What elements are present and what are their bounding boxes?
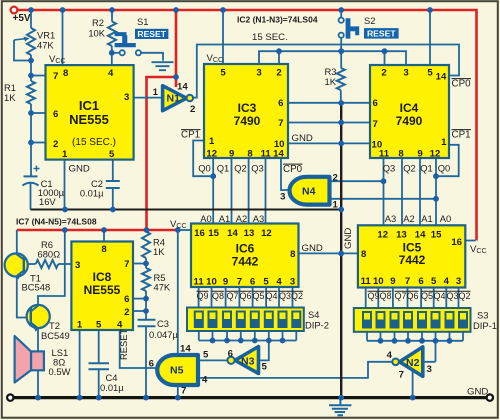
- svg-text:GND: GND: [467, 387, 488, 398]
- S1 ground symbol: [152, 62, 174, 70]
- svg-text:CP1: CP1: [452, 130, 471, 141]
- svg-text:0.5W: 0.5W: [49, 366, 71, 377]
- svg-text:3: 3: [256, 68, 261, 79]
- wire IC4 pin2 MR stub: [384, 51, 386, 65]
- svg-text:IC7 (N4-N5)=74LS08: IC7 (N4-N5)=74LS08: [16, 217, 97, 227]
- svg-text:IC6: IC6: [236, 242, 255, 256]
- wire S3 units to common: [367, 332, 463, 341]
- wire speaker to gnd rail: [37, 370, 39, 397]
- svg-text:N3: N3: [241, 356, 255, 368]
- svg-text:6: 6: [149, 359, 154, 370]
- wire S2 bottom to MR line and R3: [340, 38, 342, 68]
- wire IC1 pin6 stub: [31, 112, 46, 114]
- wire IC4 Q2 to IC5: [401, 158, 403, 225]
- resistor R2: [108, 22, 116, 47]
- svg-text:Q2: Q2: [403, 163, 416, 174]
- wire S4 units to common: [199, 332, 283, 341]
- wire IC1 pin8 Vcc riser: [62, 10, 64, 65]
- DIP switch S3: [354, 308, 471, 332]
- svg-text:7490: 7490: [396, 114, 423, 128]
- wire S1 left contact: [112, 52, 120, 54]
- wire IC1 pin5 to C2: [112, 160, 114, 181]
- wire IC4 CP1 to Q0: [436, 145, 459, 176]
- capacitor C2: [106, 181, 120, 188]
- wire N4 input1 to IC4 Q0: [330, 198, 437, 200]
- svg-text:Q8: Q8: [212, 291, 224, 301]
- ground (bottom earth symbol): [329, 399, 351, 415]
- svg-text:S3: S3: [477, 310, 488, 321]
- svg-text:7: 7: [181, 386, 186, 397]
- svg-text:Q8: Q8: [379, 291, 391, 301]
- inverter N1: [153, 82, 196, 116]
- wire IC6 outputs to S4: [199, 287, 293, 308]
- wire IC3 pin10 to IC4 pin10 GND: [288, 142, 370, 144]
- wire bottom +5V rail (red): [17, 229, 178, 232]
- svg-text:Q2: Q2: [458, 291, 470, 301]
- svg-text:Q2: Q2: [291, 291, 303, 301]
- svg-text:IC2 (N1-N3)=74LS04: IC2 (N1-N3)=74LS04: [237, 15, 318, 25]
- svg-text:DIP-1: DIP-1: [473, 320, 497, 331]
- wire red drop to N1 pin14: [175, 10, 178, 87]
- wire S2 top from rail: [340, 10, 342, 18]
- svg-text:47K: 47K: [37, 40, 54, 51]
- svg-text:N5: N5: [170, 365, 184, 377]
- svg-text:5: 5: [263, 277, 269, 288]
- svg-text:14: 14: [180, 344, 191, 355]
- svg-text:S1: S1: [137, 16, 148, 27]
- svg-text:14: 14: [436, 72, 447, 83]
- svg-text:GND: GND: [343, 228, 354, 249]
- svg-text:6: 6: [278, 98, 283, 109]
- svg-text:5: 5: [427, 68, 433, 79]
- IC6 7442: [191, 224, 299, 288]
- DIP switch S4: [187, 308, 304, 332]
- node junctions N4 inputs and IC4 CP1: [381, 173, 439, 201]
- wire IC4 Q0 to IC5: [435, 158, 437, 225]
- speaker LS1: [15, 336, 44, 383]
- svg-text:DIP-2: DIP-2: [305, 320, 329, 331]
- wire N2 pin7 to gnd rail: [412, 370, 414, 398]
- pushbutton S1: [115, 32, 141, 55]
- svg-text:N4: N4: [302, 186, 316, 198]
- svg-text:14: 14: [415, 230, 426, 241]
- node junctions bottom +5V rail: [62, 227, 181, 233]
- svg-text:1: 1: [441, 137, 447, 148]
- node CP1 label IC3: [181, 130, 201, 141]
- resistor R1: [27, 81, 35, 104]
- svg-text:13: 13: [396, 230, 407, 241]
- wire N1 output 15SEC line to IC4 CP0: [193, 45, 459, 98]
- IC4 7490: [370, 65, 449, 160]
- svg-text:Q9: Q9: [196, 291, 208, 301]
- svg-text:11: 11: [194, 277, 205, 288]
- svg-text:7: 7: [53, 71, 58, 82]
- svg-text:14: 14: [177, 82, 188, 93]
- svg-text:Q6: Q6: [239, 291, 251, 301]
- svg-text:7442: 7442: [232, 255, 259, 269]
- wire bottom GND rail (black): [14, 396, 487, 399]
- svg-text:Q4: Q4: [433, 291, 445, 301]
- wire IC3 pin7 to IC4 pin7: [288, 122, 370, 124]
- svg-text:C3: C3: [157, 318, 169, 329]
- svg-text:16: 16: [451, 237, 462, 248]
- wire VR1 wiper: [14, 40, 31, 61]
- svg-text:CP1: CP1: [181, 130, 200, 141]
- svg-text:Q3: Q3: [279, 291, 291, 301]
- wire IC8 pin4 RESET from N5 output: [120, 330, 157, 368]
- svg-text:12: 12: [261, 228, 272, 239]
- svg-text:12: 12: [206, 149, 217, 160]
- svg-text:A1: A1: [421, 213, 432, 224]
- node junctions S4 common line: [210, 338, 286, 344]
- wire R2 bottom to IC1 pin4: [111, 46, 113, 65]
- node junction CP1/Q0 of IC3: [210, 173, 216, 179]
- svg-text:3: 3: [403, 68, 408, 79]
- svg-text:7: 7: [405, 276, 410, 287]
- wire IC8 pin5 to C4: [98, 330, 100, 363]
- wire IC1 pin2 stub: [31, 142, 46, 144]
- svg-text:8: 8: [290, 249, 296, 260]
- IC8 NE555: [71, 242, 133, 331]
- node junctions VR1/R1 column: [28, 58, 34, 146]
- svg-text:+5V: +5V: [13, 13, 31, 24]
- wire GND bus vertical (black): [340, 103, 342, 398]
- wire IC5 pin16 Vcc: [465, 240, 476, 242]
- svg-text:10: 10: [373, 276, 384, 287]
- node CP0 label IC4: [452, 79, 472, 90]
- AND gate N4: [280, 173, 338, 211]
- wire N4 input2 to IC4 Q3: [330, 180, 384, 182]
- node junctions bottom GND rail: [35, 395, 415, 401]
- svg-text:16: 16: [194, 228, 205, 239]
- svg-text:6: 6: [418, 276, 423, 287]
- svg-text:1: 1: [333, 200, 339, 211]
- resistor R3: [337, 68, 345, 90]
- svg-text:9: 9: [417, 149, 422, 160]
- resistor R5: [142, 268, 150, 291]
- svg-text:0.047µ: 0.047µ: [149, 329, 178, 340]
- svg-text:CP0: CP0: [452, 79, 472, 90]
- wire IC8 pin1 to gnd rail: [79, 330, 81, 398]
- wire VR1 top from rail: [30, 10, 32, 28]
- svg-text:9: 9: [390, 276, 395, 287]
- svg-text:Q1: Q1: [217, 163, 230, 174]
- svg-text:7442: 7442: [399, 253, 426, 267]
- svg-text:R2: R2: [92, 17, 104, 28]
- svg-text:7: 7: [373, 119, 378, 130]
- wire IC6 pin8 / IC5 pin8 GND: [299, 252, 358, 254]
- potentiometer VR1: [27, 28, 35, 55]
- node junctions on +5V top rail: [28, 7, 433, 13]
- svg-text:A3: A3: [385, 213, 396, 224]
- resistor R6: [36, 260, 59, 268]
- svg-text:A1: A1: [219, 213, 230, 224]
- svg-text:Q3: Q3: [446, 291, 458, 301]
- svg-text:5: 5: [220, 68, 226, 79]
- svg-text:N1: N1: [167, 93, 181, 105]
- wire R5 bottom to C3: [145, 291, 147, 320]
- wire IC3 pin5 Vcc riser: [222, 10, 224, 64]
- node GND terminal right: [487, 394, 493, 400]
- wire R1 bottom to C1: [30, 104, 32, 176]
- wire IC4 pin5 Vcc riser: [429, 10, 431, 65]
- svg-text:15: 15: [431, 230, 442, 241]
- capacitor C3: [138, 320, 156, 326]
- node junction S1 contact: [109, 50, 115, 56]
- svg-text:Q3: Q3: [383, 163, 396, 174]
- capacitor C1 (electrolytic): [23, 166, 40, 186]
- svg-text:1: 1: [209, 136, 215, 147]
- svg-text:16V: 16V: [39, 196, 56, 207]
- svg-text:1: 1: [153, 87, 159, 98]
- svg-text:GND: GND: [292, 133, 313, 144]
- wire R2 top to rail: [111, 10, 113, 22]
- svg-text:14: 14: [227, 228, 238, 239]
- wire Vcc node to IC6 pin16: [178, 229, 191, 231]
- S2 RESET tag: [364, 28, 399, 38]
- svg-text:12: 12: [377, 230, 388, 241]
- node junctions S3 common line: [378, 338, 453, 344]
- IC5 7442: [358, 225, 465, 287]
- wire IC3 Q3 to IC6 A3: [265, 158, 267, 224]
- svg-text:1K: 1K: [325, 76, 337, 87]
- wire IC3 pin2 MR stub: [278, 51, 280, 64]
- wire S3 common to N2 input: [423, 341, 436, 362]
- wire C1 bottom to gnd line: [30, 184, 32, 210]
- svg-text:Q7: Q7: [226, 291, 238, 301]
- svg-text:GND: GND: [69, 164, 90, 175]
- wire MR line S2 to IC3/IC4 reset pins: [259, 51, 406, 65]
- svg-text:11: 11: [261, 149, 272, 160]
- svg-text:RESET: RESET: [367, 29, 396, 39]
- svg-text:7: 7: [278, 118, 283, 129]
- svg-text:8: 8: [398, 149, 404, 160]
- svg-text:12: 12: [430, 149, 441, 160]
- svg-text:2: 2: [190, 104, 195, 115]
- wire IC4 Q1 to IC5: [419, 158, 421, 225]
- svg-text:IC8: IC8: [93, 270, 112, 284]
- svg-text:BC548: BC548: [22, 282, 51, 293]
- resistor R4: [142, 232, 150, 259]
- svg-text:2: 2: [276, 68, 281, 79]
- wire IC3 pin1 CP1 to Q0: [193, 141, 213, 177]
- svg-text:6: 6: [124, 294, 129, 305]
- node CP1 label IC4: [452, 130, 472, 141]
- svg-text:S2: S2: [364, 15, 375, 26]
- wire red branch down left side to bottom rail: [147, 77, 177, 230]
- wire IC4 Q3 to IC5: [383, 158, 385, 225]
- svg-text:Q7: Q7: [394, 291, 406, 301]
- svg-text:9: 9: [223, 277, 228, 288]
- wire S4 common to N3 input: [259, 341, 269, 361]
- svg-text:(15 SEC.): (15 SEC.): [72, 137, 116, 148]
- transistor T1: [5, 253, 28, 279]
- IC1 NE555: [46, 65, 134, 160]
- svg-text:13: 13: [244, 228, 255, 239]
- node junctions MR reset line: [276, 48, 387, 54]
- svg-text:4: 4: [108, 68, 114, 79]
- wire T2 emitter to speaker: [37, 329, 39, 352]
- svg-text:14: 14: [273, 149, 284, 160]
- IC3 7490: [204, 64, 288, 160]
- node junctions GND bus: [338, 100, 344, 400]
- svg-text:2: 2: [124, 307, 129, 318]
- wire T1 collector to +5V: [16, 230, 18, 254]
- wire C3 bottom to gnd rail: [145, 327, 147, 398]
- svg-text:3: 3: [280, 192, 285, 203]
- wire N5 pin7 to gnd rail: [177, 385, 179, 398]
- svg-text:Q0: Q0: [198, 163, 211, 174]
- svg-text:15 SEC.: 15 SEC.: [252, 32, 288, 43]
- wire IC1 pin1 to gnd line: [64, 160, 66, 210]
- wire C4 bottom to gnd rail: [98, 370, 100, 398]
- svg-text:8: 8: [63, 68, 69, 79]
- svg-text:6: 6: [53, 109, 58, 120]
- wire R6 to IC8 pin3: [58, 263, 71, 265]
- node junctions GND return line: [62, 207, 116, 213]
- svg-text:Q0: Q0: [438, 163, 451, 174]
- svg-text:CP0: CP0: [283, 164, 303, 175]
- wire T1 emitter to T2 base: [17, 277, 28, 318]
- svg-text:11: 11: [361, 276, 372, 287]
- svg-text:6: 6: [373, 98, 378, 109]
- IC6/IC5 bottom wires + S4/S3 switch wires: [199, 287, 463, 341]
- svg-text:NE555: NE555: [69, 112, 109, 127]
- svg-text:Q5: Q5: [421, 291, 433, 301]
- wire IC3 Q1 to IC6 A1: [231, 158, 233, 224]
- svg-text:2: 2: [381, 68, 386, 79]
- pushbutton S2: [339, 18, 360, 39]
- transistor T2: [27, 305, 50, 332]
- wire IC1 pin3 to N1 input: [134, 97, 163, 99]
- wire R4 top to bottom rail: [145, 230, 147, 232]
- node CP0 label IC3: [283, 164, 303, 175]
- node +5V terminal: [11, 7, 18, 14]
- svg-text:6: 6: [250, 277, 255, 288]
- svg-text:NE555: NE555: [84, 283, 121, 297]
- wire IC1 pin7 stub: [31, 75, 46, 77]
- svg-text:8: 8: [361, 249, 367, 260]
- wire N3 output to N5 input5: [198, 359, 228, 361]
- AND gate N5: [149, 344, 209, 397]
- wire IC3 Q2 to IC6 A2: [248, 158, 250, 224]
- wire R4/R5 junction to IC8 pin7: [133, 263, 146, 265]
- svg-text:9: 9: [229, 149, 234, 160]
- svg-text:RESET: RESET: [118, 328, 129, 360]
- svg-text:8: 8: [247, 149, 253, 160]
- wire S1 right contact to ground: [141, 53, 163, 61]
- svg-text:IC1: IC1: [79, 98, 99, 113]
- svg-text:680Ω: 680Ω: [38, 249, 61, 260]
- svg-text:6: 6: [228, 349, 233, 360]
- inverter N3: [227, 347, 267, 374]
- svg-text:7: 7: [237, 277, 242, 288]
- svg-text:1: 1: [77, 320, 83, 331]
- wire N5 pin14 Vcc riser: [177, 230, 179, 355]
- svg-text:Q3: Q3: [251, 163, 264, 174]
- wire IC8 pin8 Vcc: [103, 230, 105, 242]
- svg-text:3: 3: [75, 260, 80, 271]
- svg-text:Q2: Q2: [234, 163, 247, 174]
- svg-text:5: 5: [109, 149, 115, 160]
- svg-text:5: 5: [262, 362, 268, 373]
- wire VR1 to R1 node: [30, 55, 32, 81]
- svg-text:8: 8: [101, 244, 107, 255]
- svg-text:7: 7: [124, 259, 129, 270]
- wire S4 common line: [199, 340, 296, 342]
- wire T2 collector to +5V: [38, 230, 65, 305]
- wire IC5 outputs to S3: [366, 288, 459, 309]
- svg-text:N2: N2: [406, 357, 420, 369]
- svg-text:Q1: Q1: [420, 163, 433, 174]
- svg-text:Q5: Q5: [252, 291, 264, 301]
- wire IC8 pin2 stub: [133, 310, 146, 312]
- svg-text:4: 4: [444, 276, 450, 287]
- svg-text:4: 4: [387, 350, 393, 361]
- svg-text:Q9: Q9: [367, 291, 379, 301]
- svg-text:2: 2: [333, 173, 338, 184]
- svg-text:7490: 7490: [234, 114, 261, 128]
- inverter N2: [387, 347, 432, 381]
- wire S3 common line: [367, 340, 463, 342]
- svg-text:0.01µ: 0.01µ: [80, 188, 104, 199]
- wire R4 to R5: [145, 258, 147, 268]
- wire R6 to T1 base: [28, 263, 36, 265]
- wire N2 output to N5 input4: [198, 362, 392, 378]
- svg-text:7: 7: [399, 370, 404, 381]
- svg-text:47K: 47K: [154, 282, 171, 293]
- node junctions R4/R5 divider: [143, 261, 149, 314]
- svg-text:3: 3: [427, 364, 432, 375]
- svg-text:RESET: RESET: [137, 29, 166, 39]
- wire GND return line (black) top half: [31, 209, 342, 211]
- wire IC8 pin6 stub: [133, 298, 146, 300]
- svg-text:5: 5: [96, 320, 102, 331]
- wire IC3 Q0 to IC6 A0: [212, 158, 214, 224]
- svg-text:1: 1: [62, 149, 68, 160]
- wire C2 bottom to gnd line: [112, 188, 114, 210]
- svg-text:1K: 1K: [153, 246, 165, 257]
- svg-text:IC4: IC4: [400, 101, 419, 115]
- svg-text:5: 5: [203, 350, 209, 361]
- wire +5V top rail (red): [18, 10, 477, 241]
- svg-text:1K: 1K: [4, 92, 16, 103]
- svg-text:GND: GND: [302, 243, 323, 254]
- capacitor C4: [89, 363, 110, 369]
- svg-text:10: 10: [206, 277, 217, 288]
- svg-text:Q4: Q4: [265, 291, 277, 301]
- svg-text:4: 4: [202, 375, 208, 386]
- svg-text:A0: A0: [440, 213, 451, 224]
- IC5 Q2-Q9 output labels (overlined): [367, 291, 470, 301]
- svg-text:IC3: IC3: [238, 101, 257, 115]
- svg-text:3: 3: [124, 92, 129, 103]
- svg-text:3: 3: [290, 277, 295, 288]
- svg-text:3: 3: [456, 276, 461, 287]
- svg-text:BC549: BC549: [41, 330, 70, 341]
- wire IC3 pin6 to IC4 pin6: [288, 102, 370, 104]
- svg-text:15: 15: [208, 228, 219, 239]
- IC6 Q2-Q9 output labels (overlined): [196, 291, 303, 301]
- svg-text:10K: 10K: [88, 28, 105, 39]
- wire IC3 pin14 CP0 from N4 output: [281, 158, 289, 190]
- svg-text:0.01µ: 0.01µ: [100, 382, 124, 393]
- svg-text:11: 11: [379, 149, 390, 160]
- S1 RESET tag: [135, 29, 168, 39]
- svg-text:A0: A0: [200, 213, 211, 224]
- wire R3 bottom to gnd bus: [340, 90, 342, 103]
- node junction red branch to N1 pin14: [173, 74, 179, 80]
